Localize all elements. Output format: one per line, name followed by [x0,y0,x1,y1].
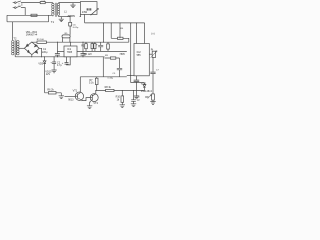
load arrow [91,8,99,15]
capacitor C3 below IC1 [65,57,71,65]
svg-text:C5: C5 [112,73,116,75]
resistor R2 [85,42,87,51]
wire T1 secondary bottom [59,16,71,18]
transformer T1 [52,3,60,17]
wire primary bottom [7,14,53,16]
capacitor C2 [52,57,56,70]
IC2 box [134,44,149,76]
wire load box to bus [84,14,86,23]
svg-text:R1 100: R1 100 [37,39,45,41]
snubber cap box [69,17,71,23]
ground under C8 [134,96,139,99]
drop wire 6 [144,23,146,44]
capacitor C5 [117,58,122,77]
svg-text:0.33μ: 0.33μ [108,78,114,80]
svg-text:T2: T2 [13,36,17,40]
inductor L1 [68,15,75,18]
svg-text:7805: 7805 [119,53,125,56]
wire IC1 area to frame [102,57,104,77]
svg-text:VT2: VT2 [93,102,98,105]
svg-text:VT1: VT1 [73,89,78,92]
wire lower horizontal [7,21,49,23]
diode VD11 [143,83,146,91]
ground under R10 [120,105,125,108]
resistor R3 [107,42,109,51]
capacitor C1 [55,42,60,57]
capacitor C below x83 [81,51,86,56]
wire T1 secondary top [59,2,81,4]
load box [80,2,97,15]
svg-text:GB 12V: GB 12V [84,53,93,56]
drop wire 4 [130,23,132,76]
bridge rectifier VD1-VD4 [24,42,39,55]
ground under VT2 [87,106,92,109]
resistor R5 above rail [62,35,70,38]
svg-text:12V: 12V [46,73,51,76]
ground after R6 [59,93,64,99]
load box glyph 1 [87,8,89,10]
wire R4 row [111,38,129,42]
svg-text:0.01μ: 0.01μ [73,27,79,29]
ground under C6 [131,104,136,107]
battery double box [92,42,95,51]
svg-text:7805: 7805 [67,51,73,54]
bus2 mid [15,56,104,58]
junction dots [31,22,137,91]
resistor R4 [118,37,124,39]
switch S blade top [16,1,21,3]
svg-text:13W: 13W [82,10,88,14]
bus top DC [85,22,145,24]
wire branch to diode [131,76,145,83]
resistor R1 on rail [37,41,46,43]
svg-text:1k: 1k [117,98,120,101]
wire bridge right to bus2 [39,48,41,57]
ground on top AC line [70,3,75,8]
capacitor C6 [131,91,136,104]
svg-text:R6 2k: R6 2k [47,89,54,92]
IC1 box [64,46,77,57]
fuse FU1 [40,2,45,4]
svg-text:220μ: 220μ [42,51,48,54]
capacitor C8 under IC2 [134,76,140,96]
wire to R9 [105,57,120,59]
wire bottom AC [21,8,25,16]
svg-text:RP: RP [145,96,149,99]
capacitor C4 [98,42,103,51]
wire T2 to bridge [18,47,24,49]
svg-text:(+): (+) [151,32,154,36]
wire L1 to load box [79,14,82,16]
svg-text:Rt: Rt [151,49,154,52]
resistor R6 row [45,92,62,94]
drop wire 3 [119,23,121,38]
transistor VT1 [75,77,90,101]
wire fuse to T1 [45,2,53,4]
svg-text:R5: R5 [65,33,69,35]
wire top AC to fuse [21,2,40,4]
svg-text:VD5: VD5 [38,62,43,65]
wire Rt down [152,57,154,72]
resistor R10 [121,91,123,105]
transformer T2 [12,40,19,55]
transistor VT2 [90,91,99,106]
diode VD5 chain [43,57,46,93]
svg-text:+: + [96,43,98,47]
frame top output stage [80,76,127,78]
pot RP [152,94,155,100]
wire rail to midline left [82,42,84,51]
svg-text:S: S [21,4,23,7]
svg-text:L1: L1 [64,10,67,13]
mid line under components [83,50,127,52]
rail DC plus [32,41,129,43]
drop wire 2 [110,23,112,38]
svg-text:R8 1k: R8 1k [105,86,112,89]
svg-text:T1: T1 [51,20,55,24]
switch S link dashed [18,3,20,7]
wire bridge bottom to bus2 [31,55,33,57]
resistor R8 [106,89,114,91]
ground below T1 secondary [59,17,64,22]
wire left down-leg [6,15,8,21]
svg-text:1μ: 1μ [137,98,140,101]
svg-text:1N4007×4: 1N4007×4 [26,34,38,37]
svg-text:9013: 9013 [68,98,74,101]
fuse FU2 on primary bottom [31,14,37,16]
load box glyph 2 [89,8,91,10]
svg-text:R4: R4 [120,28,124,30]
svg-text:VD11: VD11 [141,82,147,85]
wire base row [96,90,145,92]
drop wire 5 [136,23,138,44]
wire base V1 [65,96,76,98]
svg-text:R9: R9 [105,55,109,57]
svg-text:5.1k: 5.1k [89,82,94,85]
wire T2 primary feed [12,22,14,40]
wire under IC2 [127,75,134,77]
ground under C2 [52,70,57,73]
wire T2 bottom to bus2 [14,55,16,57]
wire riser to T1 [48,15,50,21]
svg-text:+: + [62,62,64,65]
svg-text:555: 555 [137,54,142,57]
trimmer Rt [152,51,155,57]
resistor R9 [110,57,115,59]
svg-text:1N4148×2: 1N4148×2 [141,90,153,93]
svg-text:C7: C7 [156,69,160,71]
capacitor C7 [150,72,155,94]
input terminal bottom [13,7,15,9]
input terminal top [13,2,15,4]
resistor R7 [96,77,98,91]
ground under RP [150,102,155,105]
drop wire 1 [102,23,104,42]
switch S blade bottom [16,6,21,8]
